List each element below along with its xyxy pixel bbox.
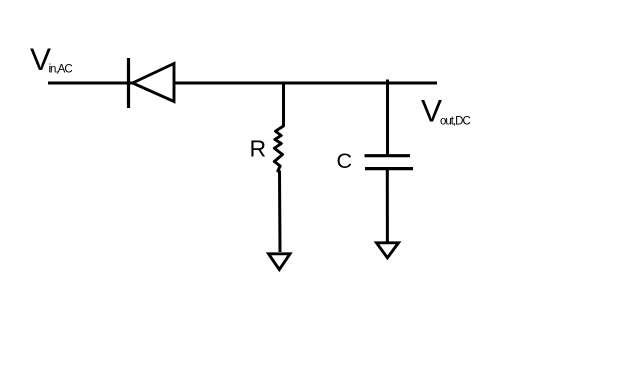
node Vout,DC label: [421, 92, 470, 128]
wire resistor bottom lead: [278, 171, 282, 253]
svg-text:R: R: [250, 136, 267, 162]
wire capacitor bottom lead: [386, 169, 389, 242]
wire resistor top lead: [282, 82, 285, 126]
ground below resistor: [269, 254, 291, 270]
svg-text:out,DC: out,DC: [440, 116, 470, 128]
diode D1 cathode bar: [127, 58, 130, 108]
wire main top rail: [174, 82, 437, 85]
svg-text:in,AC: in,AC: [49, 64, 73, 76]
resistor R zigzag: [274, 126, 283, 171]
wire capacitor top lead: [386, 80, 389, 156]
svg-text:C: C: [337, 149, 353, 173]
ground below capacitor: [377, 243, 399, 258]
diode D1 triangle: [133, 64, 175, 102]
capacitor C bottom plate: [365, 167, 413, 170]
wire input left segment: [48, 82, 133, 85]
node Vin,AC label: [30, 41, 72, 77]
capacitor C top plate: [365, 154, 411, 157]
svg-text:V: V: [421, 92, 442, 128]
